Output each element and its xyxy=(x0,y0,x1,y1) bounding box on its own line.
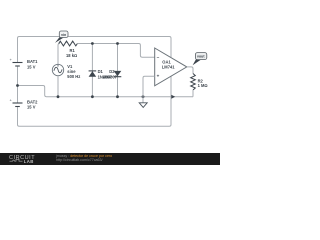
junction dots on ground net xyxy=(57,95,60,98)
svg-text:15 V: 15 V xyxy=(27,105,36,110)
svg-text:−: − xyxy=(157,55,160,60)
svg-text:1N4007: 1N4007 xyxy=(103,74,118,79)
resistor R1 xyxy=(59,41,78,46)
wire diode D1 column xyxy=(91,44,93,97)
svg-text:LAB: LAB xyxy=(24,159,34,164)
svg-text:15 V: 15 V xyxy=(27,64,36,69)
wire -15V rail: BAT2- down, across bottom, up to op-amp V- pin xyxy=(18,76,172,126)
node flag vin xyxy=(55,31,68,43)
wire R2 bottom lead xyxy=(192,90,194,97)
wire op-amp output to R2 top / vout xyxy=(187,67,193,74)
diode D2 (pointing down) xyxy=(114,71,122,77)
op-amp OA1 LM741 xyxy=(155,48,187,86)
wire +15V rail: BAT1+ up, across top, down to op-amp V+ pin xyxy=(18,37,172,63)
node flag vout xyxy=(193,53,207,66)
wire V1 top lead up to vin corner xyxy=(58,44,60,65)
svg-text:500 Hz: 500 Hz xyxy=(67,74,80,79)
svg-text:+: + xyxy=(157,74,160,79)
svg-text:LM741: LM741 xyxy=(162,65,175,70)
svg-text:18 kΩ: 18 kΩ xyxy=(66,53,77,58)
ground symbol xyxy=(139,97,147,108)
wire crossing arrow on -15V rail at ground net xyxy=(171,95,175,99)
svg-text:vout: vout xyxy=(197,55,205,59)
svg-text:vin: vin xyxy=(61,33,66,37)
wire V1 bottom lead to ground net xyxy=(57,76,59,97)
wire diode D2 column xyxy=(117,44,119,97)
battery BAT2 xyxy=(10,98,23,107)
svg-text:1 MΩ: 1 MΩ xyxy=(198,83,208,88)
svg-text:http://circuitlab.com/c77ca63/: http://circuitlab.com/c77ca63/ xyxy=(56,158,103,162)
battery BAT1 xyxy=(10,57,23,66)
wire ground branch: battery midpoint right, step down, across to R2 bottom xyxy=(18,86,194,97)
wire BAT1- to BAT2+ (battery column) xyxy=(17,67,19,103)
junction dots on vin net xyxy=(91,42,94,45)
footer logo CIRCUIT LAB xyxy=(9,155,35,164)
diode D1 (pointing up) xyxy=(89,71,97,77)
wire R1 right to op-amp inverting input xyxy=(77,44,154,58)
footer bar xyxy=(0,153,220,165)
resistor R2 (vertical) xyxy=(191,74,196,91)
voltage source V1 (sine) xyxy=(52,64,63,75)
junction: battery midpoint xyxy=(16,84,19,87)
wire op-amp + input left and down to ground net xyxy=(143,76,155,96)
